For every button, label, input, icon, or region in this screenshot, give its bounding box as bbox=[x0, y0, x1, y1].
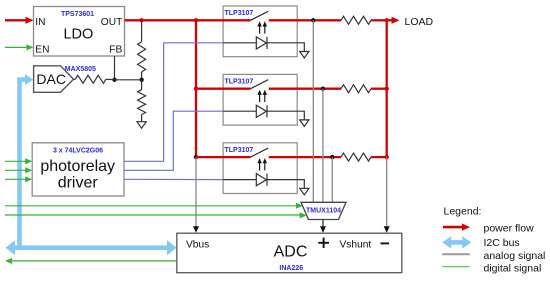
node sense tap 2 bbox=[321, 87, 325, 91]
LDO regulator U1 TPS73601 bbox=[34, 7, 125, 57]
photorelay U4 TLP3107 #1 bbox=[223, 6, 309, 58]
wire to LOAD bbox=[387, 19, 392, 21]
resistor feedback divider bottom bbox=[141, 80, 143, 90]
wire green mux select 2 bbox=[5, 212, 307, 218]
ground divider bbox=[137, 122, 146, 129]
wire red load bus bbox=[386, 20, 388, 157]
legend I2C bus bbox=[442, 236, 519, 249]
wire green enable into LDO EN bbox=[5, 44, 34, 50]
svg-text:TLP3107: TLP3107 bbox=[225, 10, 254, 17]
svg-text:EN: EN bbox=[35, 44, 49, 55]
photorelay U5 TLP3107 #2 bbox=[223, 74, 309, 126]
resistor feedback divider top bbox=[138, 42, 146, 72]
ground relay 2 bbox=[300, 120, 309, 127]
svg-text:INA226: INA226 bbox=[279, 265, 303, 272]
wire green digital input 1 to driver bbox=[5, 158, 32, 164]
DAC U2 MAX5805 bbox=[34, 66, 96, 93]
svg-text:Legend:: Legend: bbox=[444, 206, 482, 218]
LED relay 2 bbox=[223, 110, 256, 112]
wire LDO OUT power rail to photorelay 1 bbox=[125, 19, 251, 21]
ADC U8 INA226 bbox=[177, 233, 402, 273]
wire resistor 3 to load bus bbox=[371, 156, 387, 158]
svg-text:3 x 74LVC2G06: 3 x 74LVC2G06 bbox=[53, 147, 103, 154]
svg-text:DAC: DAC bbox=[36, 71, 66, 87]
LED relay 1 bbox=[223, 42, 256, 44]
svg-text:power flow: power flow bbox=[484, 222, 535, 234]
svg-text:Vshunt: Vshunt bbox=[340, 240, 372, 251]
wire sense line 2 to mux bbox=[322, 89, 324, 203]
svg-text:MAX5805: MAX5805 bbox=[65, 66, 96, 73]
switch lever relay 1 bbox=[251, 11, 269, 20]
legend digital signal bbox=[442, 262, 541, 274]
wire divider column from OUT bbox=[141, 20, 143, 41]
svg-text:ADC: ADC bbox=[274, 244, 308, 261]
wire FB pin to divider bbox=[114, 56, 116, 80]
wire resistor 2 to load bus bbox=[371, 88, 387, 90]
svg-text:FB: FB bbox=[109, 44, 122, 55]
wire sense line 3 to mux bbox=[331, 157, 333, 202]
ground relay 3 bbox=[300, 188, 309, 195]
wire red vertical power bus feeding photorelays 2,3 bbox=[195, 20, 197, 157]
I2C bus light blue bbox=[6, 74, 177, 255]
ground relay 1 bbox=[300, 52, 309, 59]
opto coupling arrows relay 1 bbox=[259, 26, 261, 33]
opto coupling arrows relay 2 bbox=[259, 95, 261, 102]
wire relay 2 output bbox=[297, 88, 341, 90]
svg-text:I2C bus: I2C bus bbox=[484, 237, 520, 249]
LED relay 3 bbox=[223, 179, 256, 181]
svg-text:digital signal: digital signal bbox=[484, 262, 542, 274]
wire driver output 2 to photorelay 2 LED bbox=[124, 111, 223, 170]
wire Vshunt- sense to ADC bbox=[386, 157, 388, 226]
node OUT/divider junction bbox=[139, 18, 143, 22]
node bus/relay3/Vbus-sense junction bbox=[194, 155, 198, 159]
svg-text:Vbus: Vbus bbox=[186, 240, 209, 251]
svg-text:driver: driver bbox=[58, 174, 99, 191]
svg-text:TPS73601: TPS73601 bbox=[61, 11, 94, 18]
node feedback junction bbox=[139, 78, 143, 82]
photorelay driver U3 74LVC2G06 bbox=[32, 143, 124, 196]
svg-text:IN: IN bbox=[35, 17, 45, 28]
photorelay U6 TLP3107 #3 bbox=[223, 143, 309, 195]
svg-text:LDO: LDO bbox=[63, 27, 93, 43]
node sense tap 3 bbox=[330, 155, 334, 159]
svg-text:photorelay: photorelay bbox=[40, 158, 115, 175]
wire driver output 3 to photorelay 3 LED bbox=[124, 178, 223, 180]
wire LED cathode to ground relay 2 bbox=[297, 111, 304, 120]
wire relay 3 output bbox=[297, 156, 341, 158]
wire mux output to ADC + bbox=[322, 220, 324, 227]
wire green alert from ADC bbox=[5, 258, 177, 264]
svg-text:TLP3107: TLP3107 bbox=[225, 79, 254, 86]
resistor DAC output bbox=[74, 78, 76, 80]
node OUT/bus junction bbox=[194, 18, 198, 22]
wire driver output 1 to photorelay 1 LED bbox=[124, 43, 223, 162]
wire green mux select 1 bbox=[5, 203, 303, 209]
node bus/relay2 junction bbox=[194, 87, 198, 91]
wire green digital input 3 to driver bbox=[5, 176, 32, 182]
wire sense line 1 to mux bbox=[312, 20, 314, 202]
legend power flow bbox=[443, 222, 534, 234]
svg-text:OUT: OUT bbox=[101, 17, 123, 28]
node FB/DAC-resistor junction bbox=[112, 78, 116, 82]
svg-text:LOAD: LOAD bbox=[405, 16, 434, 28]
opto coupling arrows relay 3 bbox=[259, 163, 261, 170]
wire relay 1 output bbox=[297, 19, 341, 21]
wire resistor 1 to load bus bbox=[371, 19, 387, 21]
node sense tap 1 bbox=[311, 18, 315, 22]
mux U7 TMUX1104 bbox=[301, 202, 346, 219]
wire Vbus sense to ADC bbox=[195, 157, 197, 226]
wire LED cathode to ground relay 3 bbox=[297, 180, 304, 189]
switch lever relay 3 bbox=[251, 148, 269, 157]
wire green digital input 2 to driver bbox=[5, 167, 32, 173]
svg-text:analog signal: analog signal bbox=[484, 250, 546, 262]
legend analog signal bbox=[442, 250, 545, 262]
resistor load 3 bbox=[341, 153, 371, 161]
svg-text:TMUX1104: TMUX1104 bbox=[306, 208, 341, 215]
svg-text:TLP3107: TLP3107 bbox=[225, 147, 254, 154]
resistor load 2 bbox=[341, 85, 371, 93]
resistor load 1 bbox=[341, 16, 371, 24]
wire red power input to LDO IN bbox=[5, 17, 34, 24]
switch lever relay 2 bbox=[251, 80, 269, 89]
wire LED cathode to ground relay 1 bbox=[297, 43, 304, 52]
